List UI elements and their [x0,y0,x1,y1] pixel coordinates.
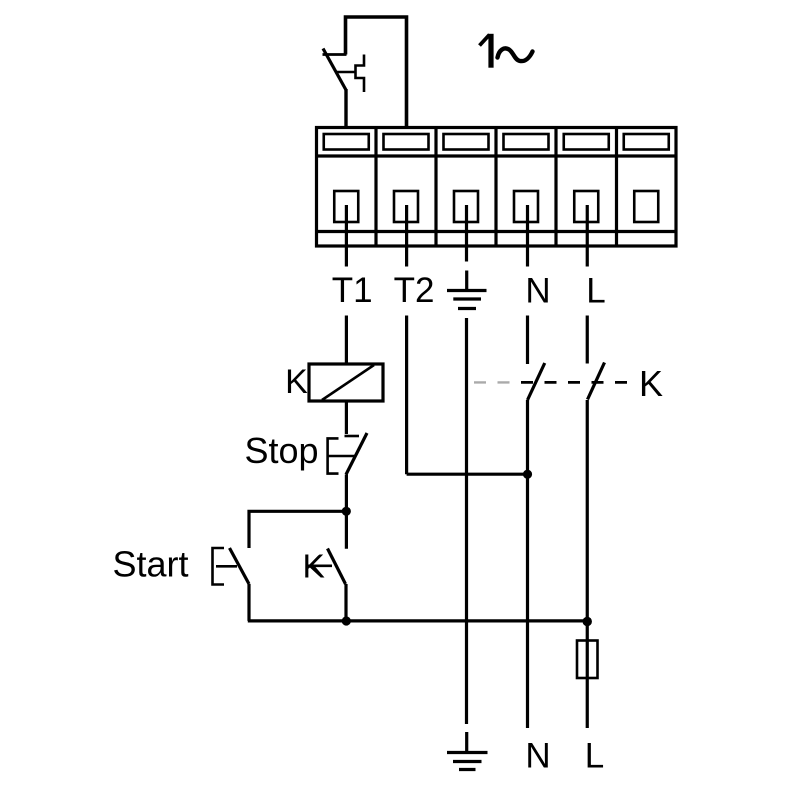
thermal switch fixed contact bar [323,53,347,56]
junction B (aux to bus) [342,616,351,625]
svg-text:Start: Start [112,544,188,585]
terminal 1 screw [334,191,358,222]
terminal 2 clamp window [384,134,429,150]
svg-text:T2: T2 [394,271,435,310]
stop button actuator [328,438,355,473]
wire coil to stop [345,401,348,434]
start button actuator [213,548,238,585]
terminal block outline [317,128,677,247]
thermal switch lower lead wire [344,89,347,129]
junction A (stop/start branch) [342,507,351,516]
earth symbol (top) [447,271,487,309]
terminal 5 pin [586,205,589,267]
svg-text:K: K [285,363,308,401]
aux contact K blade [328,549,346,585]
wire T1 drop [345,316,348,365]
terminal block cell dividers [376,128,617,247]
svg-text:Stop: Stop [244,430,318,471]
contactor main contact (N) blade [528,363,545,400]
terminal block lower divider [317,230,677,233]
terminal 2 screw [394,191,418,222]
thermal switch actuator link [336,71,356,74]
start bottom lead [247,584,250,621]
wire L upper [586,316,589,364]
thermal switch loop wire (top) [346,17,407,128]
wire L lower [586,400,589,728]
fuse F1 [577,641,598,679]
mechanical link dashed line (faint left part) [474,381,512,383]
terminal 6 clamp window [624,134,669,150]
svg-text:L: L [585,737,604,776]
wire N lower [526,400,529,728]
start button NO contact blade [230,548,250,584]
wire N upper [526,316,529,365]
svg-text:L: L [586,272,605,311]
thermal element symbol [356,55,365,93]
terminal 2 pin [405,205,408,267]
terminal 3 clamp window [444,134,489,150]
stop button NC contact [345,433,368,475]
terminal block upper divider [317,154,677,157]
junction C (bus to L) [583,617,592,626]
terminal 4 pin [526,205,529,267]
wire stop to junction and aux contact [345,475,348,549]
contactor main contact (L) blade [588,363,605,400]
wire T2 drop [405,316,408,475]
mechanical link dashed line [521,381,638,384]
terminal 1 pin [345,205,348,267]
contactor coil K [309,364,383,401]
label 1~ (single phase) [480,34,533,68]
terminal 5 screw [574,191,598,222]
terminal 6 screw [634,191,658,222]
junction D (T2 joins N) [523,470,532,479]
svg-text:N: N [525,737,550,776]
bottom bus wire [248,619,587,622]
svg-text:N: N [525,272,550,311]
svg-text:T1: T1 [332,271,373,310]
terminal 5 clamp window [564,134,609,150]
svg-text:K: K [639,363,663,404]
branch wire to start [249,511,346,548]
thermal switch blade [323,49,346,91]
earth symbol (bottom) [447,732,488,770]
terminal 1 clamp window [324,134,369,150]
aux contact arrow link [308,556,332,576]
terminal 3 pin (earth) [465,205,468,262]
terminal 4 clamp window [504,134,549,150]
earth wire (long drop) [465,318,468,724]
aux contact bottom lead [344,584,347,621]
terminal 4 screw [514,191,538,222]
wire T2 to N junction [407,473,528,476]
terminal 3 screw [454,191,478,222]
